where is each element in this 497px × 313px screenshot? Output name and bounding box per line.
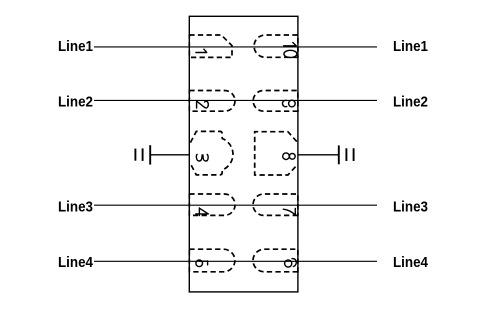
pad pin 7: [253, 194, 298, 215]
pad pin 6: [253, 249, 298, 272]
pin number 8: [283, 153, 295, 160]
ground symbol left: [135, 145, 150, 164]
package outline U1: [189, 16, 298, 292]
pin number 3: [196, 154, 208, 161]
pad pin 2: [189, 91, 235, 112]
svg-text:Line2: Line2: [393, 95, 428, 111]
pad pin 5: [189, 249, 235, 272]
svg-text:Line4: Line4: [393, 255, 428, 271]
wire ground left (pin 3): [150, 154, 189, 156]
svg-text:Line3: Line3: [58, 200, 93, 216]
wire Line4: [94, 260, 377, 262]
pin number 9: [282, 100, 295, 107]
ground symbol right: [339, 145, 354, 164]
pin number 10: [284, 43, 297, 58]
svg-text:Line3: Line3: [393, 200, 428, 216]
wire ground right (pin 8): [298, 154, 339, 156]
pad pin 9: [253, 91, 298, 112]
svg-text:Line2: Line2: [58, 95, 93, 111]
svg-text:Line1: Line1: [58, 39, 93, 55]
pin number 6: [285, 259, 297, 268]
svg-text:Line4: Line4: [58, 255, 93, 271]
svg-text:Line1: Line1: [393, 39, 428, 55]
pad pin 4: [189, 194, 235, 215]
pin number 1: [196, 49, 207, 52]
pad pin 1 (chamfered pin-1 marker): [189, 35, 232, 57]
pin number 4: [196, 208, 209, 216]
wire Line1: [94, 46, 377, 48]
pad pin 3 (ground pad with bulge): [190, 131, 233, 175]
pin number 5: [196, 260, 208, 267]
wire Line3: [94, 204, 377, 206]
pad pin 10: [254, 35, 298, 57]
pin number 2: [197, 101, 209, 108]
pin number 7: [283, 208, 295, 215]
wire Line2: [94, 99, 377, 101]
pad pin 8 (ground pad): [255, 132, 297, 175]
